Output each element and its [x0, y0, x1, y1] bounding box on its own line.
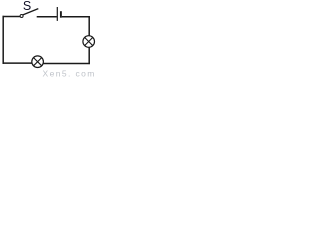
wire right side lower — [88, 47, 90, 64]
wire left side — [2, 16, 4, 64]
switch S pivot circle — [20, 15, 23, 18]
svg-text:Xen5. com: Xen5. com — [43, 69, 96, 78]
wire bottom right segment — [43, 63, 90, 65]
battery long plate — [56, 7, 58, 21]
lamp L2 circle (bottom) — [32, 56, 44, 68]
wire right side upper — [88, 16, 90, 36]
lamp L1 circle (right) — [83, 36, 95, 48]
wire between switch and battery — [37, 16, 57, 18]
lamp L1 cross — [85, 37, 93, 45]
wire bottom left segment — [3, 62, 33, 64]
switch S blade — [23, 9, 38, 15]
svg-text:S: S — [23, 0, 31, 13]
wire battery to top-right corner — [62, 16, 90, 18]
lamp L2 cross — [34, 58, 42, 66]
battery short plate — [60, 11, 62, 18]
wire top-left segment — [3, 16, 21, 18]
